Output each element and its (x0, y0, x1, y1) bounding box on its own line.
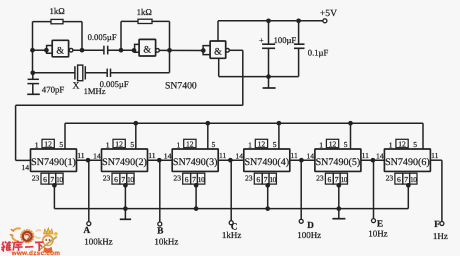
svg-text:www.dzsc.com: www.dzsc.com (11, 250, 61, 256)
